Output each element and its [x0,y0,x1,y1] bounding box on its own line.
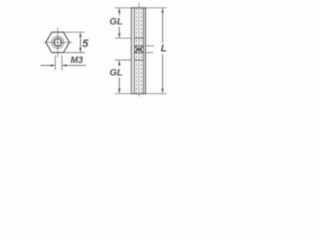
svg-text:L: L [161,44,167,55]
svg-text:5: 5 [82,38,89,50]
svg-text:GL: GL [110,68,123,79]
svg-text:М3: М3 [71,55,84,65]
svg-text:GL: GL [110,17,123,28]
